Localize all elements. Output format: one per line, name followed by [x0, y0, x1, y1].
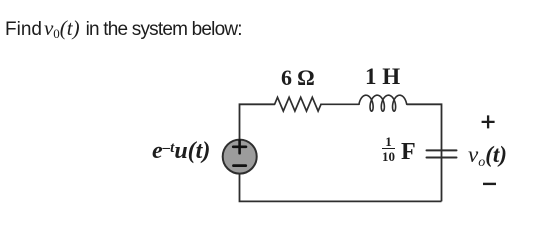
wire: bottom horizontal and left vertical below source: [240, 174, 442, 201]
inductor L1 (1 H coil): [359, 95, 407, 111]
capacitor C1 (1/10 F plates): [427, 150, 457, 157]
label: source value e^-t u(t): [152, 138, 210, 165]
title text: [5, 16, 242, 41]
wire: between resistor and inductor: [321, 103, 359, 105]
resistor R1 (6 ohm zigzag): [275, 97, 321, 111]
label: 1 H: [365, 64, 400, 90]
voltage source VS (e^-t u(t)): [223, 140, 257, 174]
label: v_o(t) output voltage: [468, 142, 507, 168]
wire: top-left L from resistor to source top: [240, 104, 275, 139]
source minus terminal mark: [234, 164, 246, 167]
wire: inductor to top-right corner and right vertical down through capacitor: [407, 104, 442, 201]
label: capacitor value 1/10 F: [382, 135, 395, 166]
label: output minus sign: [482, 181, 500, 189]
label: capacitor unit F: [401, 139, 416, 166]
label: 6 ohm: [281, 65, 314, 91]
source plus terminal mark: [233, 140, 246, 153]
label: output plus sign: [479, 114, 499, 134]
